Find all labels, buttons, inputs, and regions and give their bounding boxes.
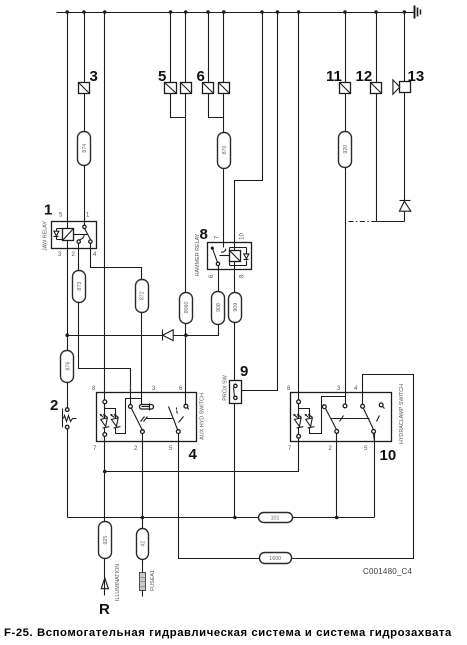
svg-text:4: 4 bbox=[189, 446, 198, 463]
fuse 12 bbox=[371, 83, 382, 94]
LED lamp 2 in switch 10 bbox=[305, 414, 315, 428]
switch 10 left armature bbox=[326, 409, 370, 430]
svg-text:AUX HYD SWITCH: AUX HYD SWITCH bbox=[200, 393, 206, 440]
wire: oval 873 down and over to aux switch pin 1 bbox=[79, 303, 131, 405]
wire 925 label oval bbox=[99, 522, 112, 559]
wire: fuse A1 stub bbox=[142, 591, 144, 597]
wire 874 label oval bbox=[78, 132, 91, 166]
bus junction dots bbox=[65, 10, 406, 14]
switch 4 pin 2 circle bbox=[141, 430, 145, 434]
wire: bus to fuse 6a bbox=[208, 13, 210, 83]
switch 10 pin 7 circle bbox=[297, 434, 301, 438]
svg-text:PROX SW: PROX SW bbox=[223, 374, 229, 400]
wire: bus to relay 1 coil (left column x=67) bbox=[67, 13, 69, 229]
wire: dash-dot option stub bbox=[349, 221, 377, 223]
svg-text:1600: 1600 bbox=[269, 556, 281, 562]
switch 10 pin 4 circle bbox=[361, 404, 365, 408]
wire: 1600 line right and up to hydraclamp pin 4 bbox=[292, 375, 414, 559]
node: hydraclamp pin2 chain on 101 line bbox=[335, 516, 339, 520]
node: junction of diode line at x=186 bbox=[184, 333, 188, 337]
horn 13 bbox=[393, 80, 411, 94]
LED lamp 1 in switch 4 bbox=[100, 414, 110, 428]
ground bbox=[411, 6, 421, 19]
fuse 6b bbox=[219, 83, 230, 94]
svg-text:920: 920 bbox=[343, 145, 349, 154]
fuse 6a bbox=[203, 83, 214, 94]
node: junction pin7/illumination feed bbox=[103, 470, 107, 474]
wire: prox switch right side to bus bbox=[242, 13, 278, 391]
svg-text:11: 11 bbox=[326, 68, 342, 85]
svg-text:12: 12 bbox=[356, 68, 373, 85]
wire: oval 925 to R with arrow bbox=[104, 559, 106, 596]
switch 10 right armature bbox=[364, 409, 380, 430]
wire 42 label oval bbox=[137, 529, 149, 560]
switch 4 pin 7 circle bbox=[103, 433, 107, 437]
switch 4 pin 8 circle bbox=[103, 400, 107, 404]
svg-text:10: 10 bbox=[380, 447, 397, 464]
svg-text:874: 874 bbox=[82, 144, 88, 153]
switch 10 lamp wiring bbox=[299, 397, 346, 435]
wire: bus to fuse 6b bbox=[223, 13, 225, 83]
svg-text:10: 10 bbox=[240, 233, 246, 240]
wire: oval 42 to fuse A1 bbox=[142, 560, 144, 573]
svg-text:5: 5 bbox=[158, 68, 166, 85]
fuse 3 bbox=[79, 83, 90, 94]
wire 870 label oval bbox=[218, 133, 231, 169]
svg-text:FUSEA1: FUSEA1 bbox=[150, 570, 156, 591]
switch 4 pin labels bbox=[92, 386, 183, 452]
svg-text:F-25. Вспомогательная гидравли: F-25. Вспомогательная гидравлическая сис… bbox=[4, 627, 452, 639]
node: diode line junction on x=67 bbox=[65, 333, 69, 337]
LED lamp 2 in switch 4 bbox=[110, 414, 120, 428]
svg-text:13: 13 bbox=[408, 68, 425, 85]
wire: fuse 12 down to option line bbox=[376, 94, 378, 222]
proximity switch 9 bbox=[230, 381, 242, 404]
wire 8060 label oval bbox=[180, 293, 193, 324]
switch 10 pin 3 circle bbox=[343, 404, 347, 408]
fuse A1 symbol bbox=[140, 573, 146, 591]
svg-text:870: 870 bbox=[222, 146, 228, 155]
wire: bus to fuse 11 bbox=[345, 13, 347, 83]
wire: relay 8 pin 6 to oval 908 bbox=[218, 266, 220, 292]
svg-text:1: 1 bbox=[44, 202, 52, 219]
wire: bus to fuse 3 bbox=[84, 13, 86, 83]
wire: aux pin 2 down through 101 junction to oval 42 bbox=[142, 434, 144, 529]
wire 909 label oval bbox=[229, 293, 242, 323]
switch 4 pin 1 circle bbox=[129, 405, 133, 409]
fuse 11 bbox=[340, 83, 351, 94]
wire: oval 874 to relay 1 pin 1 bbox=[84, 166, 86, 226]
diode D1 on horizontal line bbox=[68, 330, 174, 341]
wire: bus to fuse 5b bbox=[185, 13, 187, 83]
arrow to R (illumination feed) bbox=[101, 578, 108, 589]
wire: hydraclamp pin 2 to 101 line bbox=[336, 434, 338, 518]
fuse 5b bbox=[181, 83, 192, 94]
relay U1 JAW RELAY bbox=[52, 222, 97, 249]
diode D2 bbox=[399, 201, 410, 222]
wire: relay 8 coil out to oval 909 bbox=[234, 262, 236, 293]
switch 10 pin 8 circle bbox=[297, 400, 301, 404]
wire: fuse 3 to oval 874 bbox=[84, 94, 86, 132]
wire: oval 8060 to aux switch pin 6 bbox=[185, 324, 187, 405]
wire 1600 label oval bbox=[260, 553, 292, 564]
switch 4 pin 5 circle bbox=[176, 430, 180, 434]
wire: relay 1 pin 2 to oval 873 bbox=[78, 244, 80, 271]
wire: oval 870 to hammer relay contact bbox=[223, 169, 225, 248]
svg-text:R: R bbox=[99, 601, 110, 618]
svg-text:HAMMER RELAY: HAMMER RELAY bbox=[195, 233, 201, 276]
switch 4 pin 6 circle bbox=[184, 404, 189, 409]
node: aux switch pin2 chain on 101 line bbox=[141, 516, 145, 520]
switch 4 lamp wiring bbox=[105, 399, 142, 434]
svg-text:925: 925 bbox=[103, 536, 109, 545]
switch 10 pin 2 circle bbox=[335, 430, 339, 434]
wire 908 label oval bbox=[212, 292, 225, 325]
wire: bus to aux switch pin 8 (long line) bbox=[104, 13, 106, 401]
wire 101 label oval bbox=[259, 513, 293, 523]
wire: bus to horn 13 bbox=[404, 13, 406, 82]
wire: fuse 5 merge bracket bbox=[171, 94, 186, 118]
wire: bus to hydraclamp pin 8 (long line) bbox=[298, 13, 300, 401]
fuse 5a bbox=[165, 83, 177, 94]
switch 4 AUX HYD SWITCH box bbox=[97, 393, 197, 442]
wire: bus to fuse 5a bbox=[170, 13, 172, 83]
wire: relay 1 pin 4 over to oval 872 bbox=[91, 244, 142, 280]
power bus (top horizontal wire) bbox=[57, 12, 411, 14]
svg-text:42: 42 bbox=[140, 541, 146, 547]
wire 873 label oval bbox=[73, 271, 86, 303]
wire: horn 13 to diode D2 bbox=[404, 93, 406, 201]
wire: fuse 6 merge bracket bbox=[209, 94, 224, 118]
switch 4 left armature bbox=[132, 409, 173, 431]
wire: bus to fuse 12 bbox=[376, 13, 378, 83]
svg-text:9: 9 bbox=[240, 363, 248, 380]
svg-text:C001480_C4: C001480_C4 bbox=[363, 567, 412, 576]
svg-text:HYDRACLAMP SWITCH: HYDRACLAMP SWITCH bbox=[399, 384, 405, 444]
wire: option line to diode 13 bbox=[377, 221, 405, 223]
svg-text:909: 909 bbox=[233, 303, 239, 312]
svg-text:876: 876 bbox=[65, 362, 71, 371]
switch 10 pin labels bbox=[287, 386, 368, 452]
wire: aux pin 5 down to 1600 line bbox=[179, 434, 260, 559]
switch 10 pin 5 circle bbox=[372, 430, 376, 434]
wire: oval 920 to hydraclamp pin 3 bbox=[345, 168, 347, 405]
svg-text:2: 2 bbox=[50, 397, 58, 414]
wire 876 label oval bbox=[61, 351, 74, 383]
wire: bus jog to relay 8 coil bbox=[235, 13, 263, 251]
wire: prox switch bottom to 101 line bbox=[234, 404, 236, 518]
relay U8 HAMMER RELAY bbox=[208, 243, 252, 270]
LED lamp 1 in switch 10 bbox=[293, 414, 303, 428]
switch 10 left armature pivot circle bbox=[322, 405, 326, 409]
svg-text:8060: 8060 bbox=[184, 302, 190, 314]
wire: relay 1 coil out down to diode node bbox=[67, 241, 69, 351]
wire 872 label oval bbox=[136, 280, 149, 313]
svg-text:873: 873 bbox=[77, 282, 83, 291]
wire: oval 909 to prox switch 9 bbox=[234, 323, 236, 381]
wire: horizontal 101 line bbox=[68, 517, 259, 519]
svg-text:JAW RELAY: JAW RELAY bbox=[43, 221, 49, 251]
svg-text:ILLUMINATION: ILLUMINATION bbox=[115, 564, 121, 601]
wire: oval 908 down to diode line corner bbox=[174, 325, 219, 336]
svg-text:3: 3 bbox=[90, 68, 98, 85]
switch 10 momentary position circle bbox=[379, 403, 384, 409]
wire: fuse 11 to oval 920 bbox=[345, 94, 347, 132]
wire: rheostat 2 down to 101 line corner bbox=[67, 429, 69, 518]
switch 4 right armature (momentary) bbox=[169, 407, 184, 430]
wire: oval 876 to rheostat 2 bbox=[67, 383, 69, 408]
wire 920 label oval bbox=[339, 132, 352, 168]
svg-text:908: 908 bbox=[216, 303, 222, 312]
wire: horizontal link pin7 aux to pin7 hydraclamp bbox=[105, 439, 299, 472]
node: prox sw chain on 101 line bbox=[233, 516, 237, 520]
switch 4 rocker capsule bbox=[140, 404, 154, 411]
svg-text:101: 101 bbox=[271, 516, 280, 522]
svg-text:872: 872 bbox=[140, 291, 146, 300]
wire: aux pin 7 down to junction and oval 925 bbox=[104, 437, 106, 522]
svg-text:6: 6 bbox=[197, 68, 205, 85]
wire: 101 line up to hydraclamp switch pin 5 bbox=[374, 434, 376, 518]
wire: hydraclamp pin 5 stub bbox=[374, 434, 375, 442]
rheostat 2 (illumination dimmer) bbox=[63, 408, 77, 429]
switch 10 HYDRACLAMP SWITCH box bbox=[291, 393, 392, 442]
wire: oval 872 to aux switch rocker bbox=[141, 313, 143, 405]
